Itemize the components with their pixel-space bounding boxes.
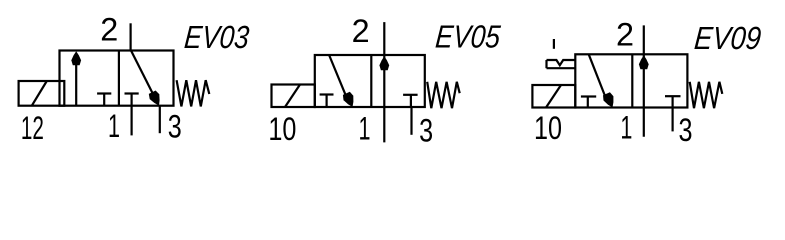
flow arrow 1-2 arrowhead in right box of EV09	[639, 55, 649, 69]
valve EV09 box divider	[631, 54, 633, 107]
solenoid coil Y1 of valve EV09	[532, 85, 575, 108]
svg-text:10: 10	[534, 110, 562, 146]
solenoid coil Y1 of valve EV05	[272, 85, 315, 108]
svg-text:3: 3	[679, 112, 693, 148]
svg-text:1: 1	[359, 111, 371, 147]
svg-text:3: 3	[168, 109, 182, 145]
svg-text:3: 3	[419, 112, 433, 148]
flow path 2-3 diagonal with arrowhead in right box of EV03	[131, 51, 160, 106]
spring return of EV05	[427, 82, 460, 108]
port 2 stub line of EV03	[130, 23, 132, 50]
port 2 to port 1 through-line of EV05	[383, 22, 385, 142]
svg-text:2: 2	[352, 13, 370, 49]
svg-text:EV05: EV05	[434, 19, 502, 55]
blocked port 3 T in right box of EV09	[665, 96, 681, 107]
spring return of EV09	[690, 82, 723, 108]
svg-text:10: 10	[268, 111, 296, 147]
port 2 to port 1 through-line of EV09	[643, 25, 645, 136]
svg-text:12: 12	[21, 110, 44, 146]
blocked port T in left box of EV05	[320, 95, 334, 108]
valve EV05 body outline	[315, 55, 425, 107]
svg-text:EV03: EV03	[183, 19, 251, 55]
valve EV09 body outline	[575, 54, 687, 107]
flow path diagonal with arrowhead in left box of EV05	[329, 55, 353, 107]
spring return of EV03	[177, 80, 210, 106]
blocked port T in left box of EV09	[581, 97, 596, 108]
svg-text:1: 1	[108, 108, 120, 144]
valve EV05 box divider	[370, 55, 372, 107]
manual override detent pin of valve EV09	[553, 39, 555, 49]
svg-text:2: 2	[616, 16, 634, 52]
flow arrow 1-2 arrowhead in right box of EV05	[379, 56, 389, 70]
port 3 line of EV05	[410, 107, 412, 135]
port 3 line of EV03	[159, 106, 161, 134]
svg-text:EV09: EV09	[693, 20, 763, 56]
flow arrow 1-2 in left box of EV03	[71, 51, 81, 105]
manual override detent notched plate of EV09	[547, 60, 576, 68]
svg-text:2: 2	[100, 12, 118, 48]
blocked port T in left box of EV03	[97, 94, 111, 106]
svg-text:1: 1	[620, 110, 632, 146]
port 3 line of EV09	[671, 108, 673, 132]
blocked port 3 T in right box of EV05	[403, 95, 418, 107]
solenoid coil Y1 of valve EV03	[19, 81, 65, 106]
blocked port 1 T in right box of EV03	[125, 94, 139, 106]
flow path diagonal with arrowhead in left box of EV09	[589, 54, 614, 107]
port 1 line of EV03	[131, 106, 133, 136]
valve EV03 body outline	[60, 51, 174, 106]
valve EV03 box divider	[118, 51, 120, 106]
